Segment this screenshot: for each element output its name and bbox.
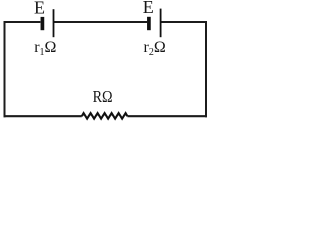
battery cell E1 long thin plate (positive) xyxy=(53,9,55,37)
wire: top-middle segment (cell E1 to cell E2) xyxy=(54,21,148,23)
wire: bottom-left segment (corner to resistor R) xyxy=(4,115,82,117)
battery cell E2 short thick plate (negative) xyxy=(147,17,151,30)
svg-text:r1Ω: r1Ω xyxy=(34,39,56,58)
battery cell E1 short thick plate (negative) xyxy=(41,17,45,30)
battery cell E2 long thin plate (positive) xyxy=(160,9,162,38)
svg-text:RΩ: RΩ xyxy=(93,87,113,106)
wire: left vertical xyxy=(4,21,6,117)
svg-text:r2Ω: r2Ω xyxy=(144,39,166,58)
wire: top-left segment (corner to cell E1) xyxy=(4,21,41,23)
wire: top-right segment (cell E2 to corner) xyxy=(161,21,207,23)
svg-text:E: E xyxy=(34,0,45,17)
resistor R zigzag xyxy=(82,113,128,119)
wire: bottom-right segment (resistor R to corner) xyxy=(127,115,207,117)
wire: right vertical xyxy=(205,21,207,117)
svg-text:E: E xyxy=(143,0,154,17)
